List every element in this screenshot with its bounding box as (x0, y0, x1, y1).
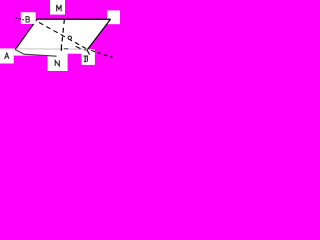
white patch: label box D (bottom right) (82, 49, 95, 65)
white patch: strip below bottom-right edge (68, 49, 82, 54)
top edge (37, 18, 111, 20)
dashed ray from bottom-right vertex (91, 50, 113, 57)
label M (57, 5, 61, 11)
label O backing patch (66, 34, 71, 39)
bottom edge right segment (84, 48, 88, 51)
left edge (15, 19, 37, 49)
dashed extension left of B (15, 18, 23, 20)
bottom edge short visible piece near N (64, 48, 68, 50)
short stroke below bottom-right vertex (87, 50, 90, 55)
white patch: label box M (50, 0, 65, 15)
white patch: top-right label box (107, 10, 120, 24)
label A (5, 53, 9, 59)
extra dash below diagonal near vertex (76, 46, 81, 48)
dashed midline M N (62, 19, 64, 42)
label D (pi-shaped glyph at bottom right) (84, 56, 89, 63)
dashed diagonal from B through O to bottom-right vertex (33, 19, 88, 49)
white patch: label box A (0, 48, 14, 63)
plane quadrilateral (white fill) (15, 19, 110, 49)
white patch: strip below bottom-left edge (14, 49, 48, 56)
N tick (60, 44, 62, 50)
bottom edge faint seam (16, 48, 88, 50)
white patch: label box B (covers line starts) (21, 12, 36, 24)
white patch: label box N (48, 49, 68, 71)
bottom edge left segment (sagging) (15, 50, 56, 57)
right edge (88, 19, 111, 49)
label O (ring) (68, 36, 71, 39)
magenta background (0, 0, 120, 71)
label B (26, 17, 29, 23)
label N (55, 60, 59, 66)
